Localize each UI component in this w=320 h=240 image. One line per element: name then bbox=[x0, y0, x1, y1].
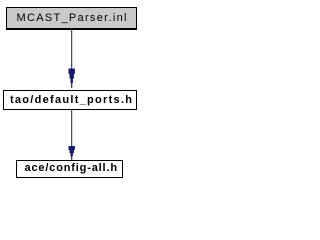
node MCAST_Parser.inl bbox=[6, 7, 137, 30]
node tao/default_ports.h bbox=[3, 90, 137, 110]
wire edge2: tao/default_ports.h -> ace/config-all.h bbox=[69, 110, 75, 160]
wire edge1: MCAST_Parser.inl -> tao/default_ports.h bbox=[69, 29, 75, 88]
edges bbox=[0, 0, 144, 187]
node ace/config-all.h bbox=[16, 160, 123, 179]
